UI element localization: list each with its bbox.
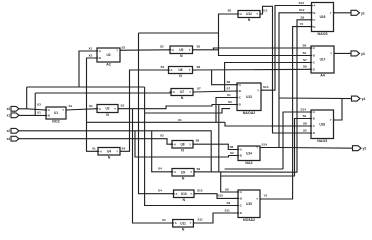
svg-text:U17: U17 <box>320 58 326 62</box>
wire branch to U18.A <box>283 112 311 169</box>
svg-text:U13: U13 <box>246 95 252 99</box>
svg-text:N: N <box>181 149 184 153</box>
svg-text:X1: X1 <box>92 147 96 151</box>
svg-text:Y2: Y2 <box>264 194 268 198</box>
wire U13.Y S13 to U16.A <box>261 6 312 91</box>
svg-text:X2: X2 <box>162 218 166 222</box>
svg-text:U1: U1 <box>54 111 58 115</box>
output pad y4 <box>352 96 366 101</box>
svg-text:A: A <box>313 46 315 50</box>
wire S7 branch up to U17.C <box>225 63 311 92</box>
svg-text:S2: S2 <box>160 45 164 49</box>
inverter U2 <box>95 105 119 118</box>
wire x3 branch up <box>26 87 28 109</box>
wire S6 branch to U13.A <box>212 70 237 85</box>
svg-text:B: B <box>313 117 315 121</box>
svg-text:S1: S1 <box>69 104 73 108</box>
svg-text:B: B <box>239 89 241 93</box>
inverter U5 <box>168 46 194 58</box>
svg-text:U11: U11 <box>180 221 186 225</box>
svg-text:Y: Y <box>189 142 191 146</box>
svg-text:Y: Y <box>330 118 332 122</box>
svg-text:A: A <box>172 48 174 52</box>
svg-text:N: N <box>182 177 185 181</box>
gate U16 <box>310 3 335 37</box>
svg-text:B: B <box>240 197 242 201</box>
wire net X3 horizontal run <box>27 86 145 88</box>
svg-text:X3: X3 <box>160 134 164 138</box>
svg-text:S8: S8 <box>230 145 234 149</box>
svg-text:S12: S12 <box>262 8 268 12</box>
svg-text:S11: S11 <box>225 208 231 212</box>
inverter U6 <box>167 67 194 79</box>
svg-text:Y: Y <box>190 192 192 196</box>
svg-text:S7: S7 <box>227 86 231 90</box>
svg-text:U15: U15 <box>246 202 252 206</box>
svg-text:U16: U16 <box>320 15 326 19</box>
wire vertical junction to U16.B <box>279 13 312 148</box>
input pad x1 <box>7 113 19 118</box>
svg-text:U9: U9 <box>181 170 185 174</box>
svg-text:NA2: NA2 <box>245 161 252 165</box>
wire U18.Y up to y4 line <box>334 98 343 120</box>
svg-text:Y: Y <box>256 12 258 16</box>
gate U13 <box>235 83 262 115</box>
svg-text:X4: X4 <box>158 167 162 171</box>
wire stub at U13.D down <box>218 105 220 173</box>
wire S12 down to U18.D <box>260 6 311 133</box>
svg-text:A: A <box>313 110 315 114</box>
svg-text:S9: S9 <box>197 167 201 171</box>
svg-text:U12: U12 <box>246 12 252 16</box>
svg-text:U3: U3 <box>106 53 110 57</box>
svg-text:X1: X1 <box>178 118 182 122</box>
gate U15 <box>236 190 261 222</box>
svg-text:C: C <box>239 96 241 100</box>
svg-text:D: D <box>313 131 315 135</box>
svg-text:Y: Y <box>330 11 332 15</box>
inverter U9 <box>170 169 195 181</box>
svg-text:X2: X2 <box>230 151 234 155</box>
svg-text:X1: X1 <box>227 93 231 97</box>
svg-text:S9: S9 <box>301 15 305 19</box>
svg-text:A: A <box>99 49 101 53</box>
svg-text:S11: S11 <box>198 218 204 222</box>
svg-text:X3: X3 <box>37 102 41 106</box>
svg-text:S10: S10 <box>218 194 224 198</box>
svg-text:S3: S3 <box>227 201 231 205</box>
wire x1 branch up <box>34 93 36 115</box>
wire net X1 horizontal run to U7.A <box>35 92 171 94</box>
svg-text:Y: Y <box>189 68 191 72</box>
svg-text:Y: Y <box>256 146 258 150</box>
svg-text:x2: x2 <box>7 129 11 133</box>
output pad y3 <box>351 51 365 56</box>
wire S9 branch to U15.A <box>221 172 238 192</box>
svg-text:N: N <box>108 156 111 160</box>
svg-text:U4: U4 <box>107 149 111 153</box>
svg-text:U14: U14 <box>246 151 252 155</box>
svg-text:Y: Y <box>116 49 118 53</box>
wire X1 to U18.C <box>225 122 311 126</box>
wire x3 pad to U1.A <box>19 109 46 110</box>
svg-text:D: D <box>240 211 242 215</box>
inverter U8 <box>170 141 194 153</box>
svg-text:S12: S12 <box>299 8 305 12</box>
wire vertical down to U10.A <box>139 33 174 194</box>
wire S5 jog to U17.A <box>213 48 311 50</box>
wire x2 branch to U9.A <box>152 131 172 172</box>
svg-text:Y: Y <box>116 150 118 154</box>
wire U1.Y to U2.A <box>66 109 97 110</box>
wire branch down to U11.A <box>133 109 173 223</box>
svg-text:S3: S3 <box>228 100 232 104</box>
wire U15.Y Y2 to U16.D <box>260 27 312 199</box>
svg-text:X1: X1 <box>37 110 41 114</box>
svg-text:Y2: Y2 <box>300 22 304 26</box>
svg-text:Y: Y <box>330 52 332 56</box>
svg-text:U18: U18 <box>319 122 325 126</box>
svg-text:A: A <box>173 90 175 94</box>
svg-text:S10: S10 <box>197 189 203 193</box>
svg-text:U7: U7 <box>180 90 184 94</box>
svg-text:S14: S14 <box>301 107 307 111</box>
svg-text:S7: S7 <box>197 87 201 91</box>
svg-text:A: A <box>48 108 50 112</box>
svg-text:Y: Y <box>190 221 192 225</box>
wire x1 pad to U1.B <box>19 114 46 116</box>
svg-text:A: A <box>175 221 177 225</box>
wire run at y=169 <box>225 168 283 170</box>
svg-text:A4: A4 <box>320 74 325 78</box>
wire U8.Y S8 to U14.A <box>193 144 238 149</box>
inverter U7 <box>169 89 194 101</box>
wire U17.Y to y3 pad <box>334 52 351 54</box>
wire y4 line <box>279 97 352 100</box>
svg-text:S1: S1 <box>89 104 93 108</box>
svg-text:A2: A2 <box>106 63 111 67</box>
gate U18 <box>309 110 335 143</box>
svg-text:Y: Y <box>114 107 116 111</box>
input pad x4 <box>7 136 19 141</box>
svg-text:x4: x4 <box>7 137 11 141</box>
svg-text:S9: S9 <box>225 187 229 191</box>
wire net X1 long branch <box>87 121 226 123</box>
svg-text:S8: S8 <box>303 121 307 125</box>
svg-text:A: A <box>240 190 242 194</box>
svg-text:S13: S13 <box>263 85 269 89</box>
wire U6.Y S6 long run to U17.D <box>193 68 312 71</box>
svg-text:A: A <box>314 4 316 8</box>
svg-text:Y: Y <box>190 170 192 174</box>
svg-text:A: A <box>171 68 173 72</box>
svg-text:Y: Y <box>62 108 64 112</box>
svg-text:NO2: NO2 <box>52 120 59 124</box>
wire U7.Y S7 to U13.B <box>193 91 237 92</box>
svg-text:X4: X4 <box>158 189 162 193</box>
inverter U11 <box>171 220 195 232</box>
svg-text:S3: S3 <box>121 103 125 107</box>
svg-text:C: C <box>313 124 315 128</box>
svg-text:U5: U5 <box>179 48 183 52</box>
svg-text:S4: S4 <box>161 65 165 69</box>
svg-text:N: N <box>181 96 184 100</box>
gate U17 <box>309 46 335 78</box>
inverter U4 <box>96 148 121 160</box>
wire U9.Y S9 to U16.C <box>194 20 312 172</box>
svg-text:Y: Y <box>189 90 191 94</box>
svg-text:X1: X1 <box>89 46 93 50</box>
svg-text:N: N <box>182 228 185 232</box>
svg-text:N: N <box>180 54 183 58</box>
output pad y2 <box>353 146 367 151</box>
svg-text:N: N <box>179 74 182 78</box>
svg-text:x3: x3 <box>7 107 11 111</box>
svg-text:S14: S14 <box>262 142 268 146</box>
wire x2 branch to U14.B <box>135 131 238 157</box>
svg-text:S6: S6 <box>303 65 307 69</box>
svg-text:D: D <box>313 68 315 72</box>
svg-text:D: D <box>239 103 241 107</box>
svg-text:B: B <box>314 11 316 15</box>
svg-text:A: A <box>174 170 176 174</box>
svg-text:A: A <box>239 83 241 87</box>
svg-text:S5: S5 <box>303 128 307 132</box>
svg-text:C: C <box>313 61 315 65</box>
svg-text:S2: S2 <box>303 51 307 55</box>
svg-text:Y: Y <box>189 48 191 52</box>
svg-text:U6: U6 <box>178 68 182 72</box>
wire X1 vertical U3.B to U4.A <box>87 58 99 151</box>
gate U1 <box>44 107 67 124</box>
svg-text:B: B <box>99 56 101 60</box>
svg-text:S9: S9 <box>303 114 307 118</box>
svg-text:N: N <box>106 113 109 117</box>
svg-text:S8: S8 <box>196 139 200 143</box>
svg-text:N: N <box>248 18 251 22</box>
gate U14 <box>236 146 261 166</box>
wire U3.Y to U5.A <box>120 49 170 52</box>
wire S5 vertical to U17.B <box>219 50 312 56</box>
svg-text:S6: S6 <box>197 65 201 69</box>
svg-text:S5: S5 <box>228 9 232 13</box>
svg-text:U8: U8 <box>180 142 184 146</box>
output pad y1 <box>351 10 365 15</box>
wire U10.Y S10 to U15.B <box>194 194 238 199</box>
svg-text:A: A <box>100 150 102 154</box>
svg-text:S13: S13 <box>299 1 305 5</box>
wire X3 branch up to U3.A <box>79 51 97 87</box>
svg-text:y2: y2 <box>363 147 367 151</box>
wire X3 down to U15.C <box>145 87 238 206</box>
svg-text:X3: X3 <box>89 54 93 58</box>
svg-text:NAO3: NAO3 <box>317 139 327 143</box>
svg-text:y4: y4 <box>362 97 366 101</box>
svg-text:S2: S2 <box>122 45 126 49</box>
svg-text:NAOA2: NAOA2 <box>243 111 256 115</box>
svg-text:y1: y1 <box>361 11 365 15</box>
svg-text:S6: S6 <box>227 80 231 84</box>
svg-text:B: B <box>48 114 50 118</box>
svg-text:x1: x1 <box>7 114 11 118</box>
svg-text:NO3A2: NO3A2 <box>243 218 255 222</box>
svg-text:N: N <box>182 198 185 202</box>
svg-text:A: A <box>240 12 242 16</box>
svg-text:U10: U10 <box>181 192 187 196</box>
svg-text:C: C <box>240 204 242 208</box>
wire U16.Y to y1 pad <box>334 12 352 14</box>
svg-text:U2: U2 <box>105 107 109 111</box>
gate U3 <box>95 48 121 67</box>
svg-text:A: A <box>99 107 101 111</box>
svg-text:B: B <box>313 54 315 58</box>
svg-text:C: C <box>314 18 316 22</box>
wire X1 up to U13.C <box>216 98 237 123</box>
wire H1 branch left <box>139 32 219 34</box>
svg-text:A: A <box>176 192 178 196</box>
inverter U12 <box>236 11 261 23</box>
wire run to U18.B <box>221 119 311 177</box>
wire U11.Y S11 to U15.D <box>193 213 238 223</box>
input pad x2 <box>7 128 19 133</box>
wire x2 pad long run with corner down <box>19 131 211 172</box>
svg-text:A: A <box>240 148 242 152</box>
svg-text:NAO3: NAO3 <box>318 32 328 36</box>
wire U5.Y S5 to U12.A <box>193 14 239 50</box>
svg-text:S5: S5 <box>197 45 201 49</box>
wire U2.Y stepped to U13.D <box>118 105 237 109</box>
svg-text:D: D <box>314 25 316 29</box>
svg-text:S7: S7 <box>303 58 307 62</box>
svg-text:A: A <box>174 142 176 146</box>
svg-text:B: B <box>240 154 242 158</box>
svg-text:Y: Y <box>256 197 258 201</box>
wire U14.Y S14 to y2 pad <box>260 147 353 150</box>
wire U4.Y S4 up to U6.A <box>120 70 169 151</box>
svg-text:S9: S9 <box>303 43 307 47</box>
wire x4 pad to U8.A <box>19 139 172 145</box>
input pad x3 <box>7 106 19 111</box>
svg-text:S4: S4 <box>122 147 126 151</box>
inverter U10 <box>172 190 196 202</box>
wire branch line toward U13 <box>145 109 230 113</box>
svg-text:Y: Y <box>257 88 259 92</box>
svg-text:y3: y3 <box>361 52 365 56</box>
